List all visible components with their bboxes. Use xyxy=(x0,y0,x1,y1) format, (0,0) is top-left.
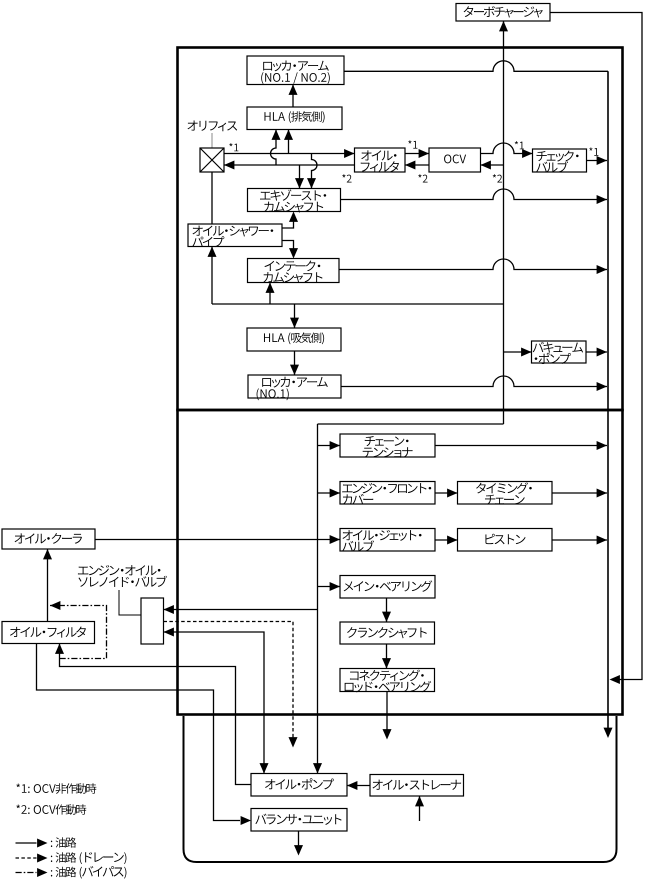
label: turbocharger xyxy=(464,6,543,17)
legend: dash-dot bypass arrow xyxy=(16,868,48,877)
leader: engine oil solenoid valve label pointer xyxy=(119,590,141,615)
label: intake camshaft xyxy=(263,261,322,284)
label: oil filter xyxy=(361,150,399,172)
label: OCV xyxy=(444,154,466,163)
block: oil shower pipe xyxy=(188,224,282,247)
label: chain tensioner xyxy=(363,436,413,458)
wire: turbocharger return line (right side down to block) xyxy=(550,13,642,685)
wire: right drain rail down to oil pan xyxy=(604,71,613,738)
wire: piston drain to rail xyxy=(552,536,607,545)
wire: oil filter to oil cooler riser xyxy=(43,549,52,622)
wire: rocker arm NO.1 drain to rail with hop xyxy=(341,376,607,391)
arrowhead: into oil shower pipe bottom xyxy=(208,247,217,257)
block: crankshaft xyxy=(340,622,435,644)
note: *2 OCV active xyxy=(16,804,86,815)
block: main bearing xyxy=(340,576,435,599)
wire: return line oil filter to orifice (*2) xyxy=(224,161,355,170)
block: HLA (intake side) xyxy=(247,328,341,351)
wire: pickup into oil strainer xyxy=(415,796,424,821)
wire: oil shower pipe to exhaust camshaft xyxy=(282,212,298,229)
label: *1 filter-OCV xyxy=(408,140,417,148)
wire: oil strainer to oil pump xyxy=(347,781,370,790)
wire: orifice drain down to lower manifold xyxy=(211,172,213,304)
block: exhaust camshaft xyxy=(248,189,341,212)
block: balancer unit xyxy=(251,809,347,832)
block: rocker arm (NO.1 / NO.2) xyxy=(247,56,344,85)
block: piston xyxy=(458,529,553,552)
block: check valve xyxy=(533,149,587,172)
label: orifice xyxy=(187,120,237,131)
label: *2 at filter left xyxy=(342,174,351,182)
block: engine front cover xyxy=(340,482,435,505)
label: check valve xyxy=(536,151,578,173)
note: *1 OCV inactive xyxy=(16,783,96,794)
wire: oil jet valve to piston xyxy=(435,536,458,545)
wire: return line spine to OCV (*2) xyxy=(481,161,504,170)
block: vacuum pump xyxy=(532,341,587,363)
label: oil filter main xyxy=(10,626,86,637)
legend: solid flow arrow xyxy=(16,839,48,848)
wire: timing chain drain to rail xyxy=(552,489,607,498)
label: rocker arm NO.1/NO.2 xyxy=(261,61,330,84)
wire: oil shower pipe to intake camshaft xyxy=(282,241,298,259)
wire: exhaust camshaft drain to rail with hop xyxy=(341,189,608,204)
wire: manifold branch up to intake camshaft xyxy=(266,283,275,305)
legend text: oil path (drain) xyxy=(51,852,127,864)
label: *2 OCV-filter xyxy=(418,174,427,182)
block: rocker arm (NO.1) xyxy=(248,375,341,398)
wire: OCV to check valve (*1) with hop over spine xyxy=(481,143,533,158)
label: balancer unit xyxy=(255,814,341,825)
label: timing chain xyxy=(476,482,532,504)
wire: manifold branch down to HLA (intake) xyxy=(290,304,299,328)
label: main bearing xyxy=(344,580,433,591)
label: engine oil solenoid valve (line 1) xyxy=(78,565,160,575)
block: oil cooler xyxy=(2,529,95,549)
cylinder-head enclosure (upper block outline) xyxy=(178,48,623,411)
wire: solenoid valve / oil pump line xyxy=(164,628,269,774)
leader: orifice label pointer xyxy=(211,133,213,148)
wire: check valve output to drain rail (*1) xyxy=(587,156,608,165)
label: connecting rod bearing xyxy=(345,670,432,693)
wire: main bearing to crankshaft xyxy=(382,598,391,622)
label: vacuum pump xyxy=(533,342,583,364)
wire: intake camshaft drain to rail with hop xyxy=(339,259,607,274)
wire: rocker arm NO.1/NO.2 drain to right drain rail xyxy=(344,61,608,71)
label: oil cooler xyxy=(15,533,82,544)
block: oil filter (main circuit) xyxy=(2,622,95,644)
orifice symbol (crossed square) xyxy=(200,148,224,172)
wire: spine feed to main bearing xyxy=(318,582,341,591)
wire: supply line orifice to oil filter (*1) xyxy=(224,149,355,158)
block: HLA (exhaust side) xyxy=(247,107,342,130)
wire: chain tensioner drain to rail xyxy=(435,441,607,450)
cylinder-block enclosure (lower block outline) xyxy=(178,410,623,715)
wire: spine feed to chain tensioner xyxy=(318,441,341,450)
label: HLA intake side xyxy=(264,332,324,344)
legend: dashed drain arrow xyxy=(16,854,48,863)
label: *1 at orifice xyxy=(229,143,238,151)
wire: main gallery spine (oil pump to turbocharger feed) xyxy=(313,21,508,774)
wire: return branch down to exhaust camshaft xyxy=(295,165,304,189)
wire: crankshaft to connecting rod bearing xyxy=(382,644,391,669)
wire: HLA (exhaust) to rocker arm NO.1/NO.2 xyxy=(289,85,298,108)
block: chain tensioner xyxy=(340,434,435,457)
wire: solenoid valve drain to oil pan (dashed) xyxy=(164,622,298,748)
wire: return branch up to HLA (exhaust) with hop xyxy=(271,130,281,166)
label: oil shower pipe xyxy=(192,226,273,248)
block: engine oil solenoid valve xyxy=(141,598,164,644)
legend text: oil path (bypass) xyxy=(51,866,127,879)
block: oil filter (head circuit) xyxy=(355,148,406,172)
block: oil pump xyxy=(251,774,347,797)
label: *2 spine-OCV xyxy=(493,174,502,182)
wire: balancer unit drain xyxy=(294,831,303,856)
block: intake camshaft xyxy=(248,259,340,283)
wire: oil filter branch to balancer unit xyxy=(37,644,252,826)
wire: spine feed to vacuum pump xyxy=(504,348,532,357)
wire: connecting rod bearing drain to oil pan xyxy=(383,692,392,740)
label: HLA exhaust side xyxy=(264,111,324,123)
wire: supply branch down to exhaust camshaft with hop xyxy=(307,154,317,189)
label: piston xyxy=(485,534,525,545)
wire: oil cooler to oil jet valve xyxy=(95,535,340,544)
wire: spine feed to engine front cover xyxy=(318,489,341,498)
oil pan enclosure (rounded outline) xyxy=(184,716,617,862)
label: oil jet valve xyxy=(342,530,421,552)
block: timing chain xyxy=(458,482,553,505)
label: exhaust camshaft xyxy=(260,189,326,212)
wire: supply branch up to HLA (exhaust) xyxy=(284,130,293,154)
block: turbocharger xyxy=(456,4,550,22)
wire: return line OCV to oil filter (*2) xyxy=(405,161,429,170)
wire: engine front cover to timing chain xyxy=(435,489,458,498)
block: oil strainer xyxy=(370,775,464,797)
wire: spine feed to engine oil solenoid valve xyxy=(164,605,318,614)
label: oil pump xyxy=(265,778,334,789)
wire: HLA (intake) to rocker arm NO.1 xyxy=(290,351,299,375)
label: engine oil solenoid valve (line 2) xyxy=(78,576,167,587)
wire: head return manifold xyxy=(212,303,504,305)
label: *1 check valve out xyxy=(589,147,598,155)
label: crankshaft xyxy=(347,627,427,638)
label: engine front cover xyxy=(342,483,431,505)
block: connecting rod bearing xyxy=(340,669,435,692)
wire: oil filter to OCV (*1) xyxy=(405,149,429,158)
label: rocker arm NO.1 xyxy=(257,377,328,400)
legend text: oil path xyxy=(51,837,76,847)
label: *1 OCV-check valve xyxy=(515,141,524,149)
label: oil strainer xyxy=(373,780,462,790)
block: oil jet valve xyxy=(340,529,435,552)
block: OCV (oil control valve) xyxy=(429,148,481,172)
wire: oil filter bypass (dash-dot) xyxy=(50,601,107,659)
wire: vacuum pump drain to rail xyxy=(586,348,607,357)
wire: oil pump to oil filter xyxy=(55,644,251,785)
